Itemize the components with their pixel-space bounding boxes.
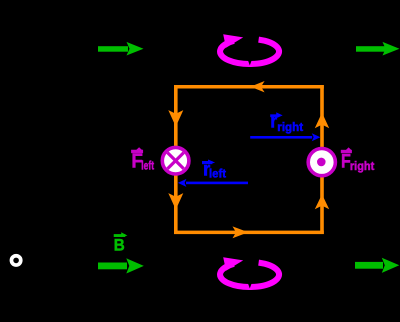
label r_left with vector arrow [202,160,226,181]
moment arm vector r_right (blue, pointing right) [250,133,320,141]
B field arrow top-right [356,42,400,56]
rotation arrow bottom (magenta ellipse arc) [220,257,279,287]
current arrow left wire upper (down) [168,110,183,127]
current arrow bottom wire (right) [233,226,249,238]
wire left side of loop [174,85,178,234]
current arrow right wire lower (up) [315,194,329,209]
svg-text:left: left [209,167,226,181]
B field arrow bottom-left [98,258,144,273]
wire right side of loop [320,85,324,234]
current arrow left wire lower (down) [168,193,183,210]
moment arm vector r_left (blue, pointing left) [178,179,248,187]
svg-text:right: right [350,159,374,173]
rotation axis tick crossing top rotation arrow [248,60,252,66]
label F_left with vector arrow [131,148,154,173]
wire top side of loop [174,85,324,89]
B field arrow top-left [98,42,144,56]
current-out-of-page symbol (circle dot) on right wire [308,149,335,176]
current-into-page symbol (circle X) on left wire [162,147,189,174]
svg-text:right: right [277,120,303,134]
B field arrow bottom-right [355,258,399,273]
current arrow top wire (left) [251,81,265,92]
rotation arrow top (magenta ellipse arc) [220,34,279,64]
rotation axis tick crossing bottom rotation arrow [248,283,252,289]
svg-text:B: B [114,236,125,255]
svg-text:left: left [141,159,154,173]
label F_right with vector arrow [341,148,374,173]
label r_right with vector arrow [270,112,303,134]
label B with vector arrow [114,233,127,255]
wire bottom side of loop [174,231,324,235]
axis origin symbol (white ring, x out of page) [11,256,20,265]
current arrow right wire upper (up) [315,113,329,129]
